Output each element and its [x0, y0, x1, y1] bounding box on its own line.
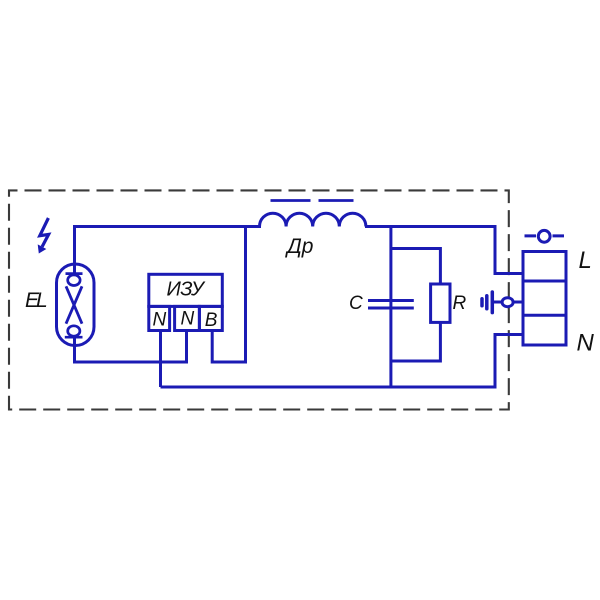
resistor branch wires: [391, 249, 441, 362]
terminal block: [523, 252, 566, 346]
wire: top bus right segment, choke to block: [365, 227, 523, 274]
plug contact circle: [502, 298, 513, 307]
lamp arc X: [66, 286, 82, 323]
svg-text:L: L: [579, 247, 592, 274]
capacitor C plates: [368, 301, 414, 309]
lamp electrode tip top: [68, 275, 80, 286]
choke core bars: [271, 199, 354, 202]
ignitor IZU box: [149, 274, 223, 306]
ignitor terminal N2: [175, 306, 200, 330]
lamp electrode ticks bottom: [65, 336, 83, 339]
svg-text:Др: Др: [285, 235, 313, 258]
fuse link circle: [538, 230, 550, 242]
enclosure dashed boundary: [9, 190, 509, 409]
terminal block dividers: [523, 281, 566, 315]
lamp electrode ticks top: [66, 272, 83, 275]
lamp electrode tip bottom: [68, 326, 80, 336]
wire: lamp bottom to ignitor N2: [75, 331, 187, 363]
svg-text:N: N: [181, 309, 195, 330]
wire: top bus left segment, lamp to choke: [75, 227, 262, 275]
lightning bolt (high-voltage mark): [40, 218, 49, 247]
plug contact stem: [493, 301, 524, 304]
fuse link above block: [525, 234, 565, 237]
capacitor branch wire: [389, 227, 392, 387]
ignitor terminal B: [199, 306, 222, 330]
plug contact: chassis bars: [482, 292, 492, 313]
wire: junction drop to ignitor terminal B: [212, 227, 245, 363]
svg-text:C: C: [349, 293, 363, 314]
svg-text:R: R: [453, 293, 467, 314]
wire: ignitor N1 drop to bottom bus: [159, 331, 162, 388]
svg-text:N: N: [153, 309, 167, 330]
choke Dr inductor winding: [260, 213, 366, 226]
svg-text:B: B: [205, 310, 218, 331]
ignitor terminal N1: [149, 306, 170, 330]
lamp EL envelope: [57, 264, 95, 346]
svg-text:N: N: [577, 330, 595, 357]
svg-text:ИЗУ: ИЗУ: [167, 278, 206, 300]
wire: bottom bus to block: [161, 335, 524, 388]
resistor R body: [431, 284, 450, 322]
svg-text:EL: EL: [25, 289, 47, 312]
